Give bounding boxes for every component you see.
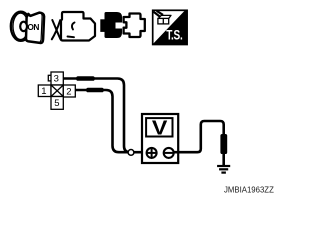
wire junction to voltmeter	[131, 151, 146, 154]
connect connector icon	[100, 12, 145, 38]
minus terminal	[164, 148, 174, 158]
junction circle	[128, 150, 134, 156]
svg-text:V: V	[152, 116, 168, 139]
T.S. test switch icon	[153, 10, 188, 44]
svg-text:ON: ON	[27, 22, 39, 32]
svg-text:JMBIA1963ZZ: JMBIA1963ZZ	[224, 186, 274, 195]
probe boot on pin-3 wire	[76, 76, 95, 81]
connector pinout: center cell with X	[51, 85, 63, 97]
ignition switch ON icon	[11, 12, 44, 43]
wire from pin 3 to junction	[63, 79, 130, 153]
voltmeter box	[142, 114, 178, 163]
voltmeter display window	[146, 118, 172, 136]
connector pinout: pin 3 cell	[51, 72, 63, 85]
plus terminal	[147, 148, 157, 158]
probe boot on ground wire	[220, 134, 227, 154]
connector pinout: tab	[48, 75, 51, 81]
wire from pin 2 to junction	[75, 90, 131, 152]
svg-text:5: 5	[54, 98, 59, 109]
svg-text:3: 3	[54, 74, 59, 85]
disconnect connector icon	[52, 12, 95, 41]
probe boot on pin-2 wire	[86, 88, 104, 93]
svg-text:T.S.: T.S.	[166, 27, 182, 43]
ground symbol	[217, 165, 230, 167]
connector pinout: pin 1 cell	[38, 85, 51, 97]
svg-text:2: 2	[66, 86, 71, 97]
connector pinout: pin 5 cell	[51, 97, 63, 110]
svg-text:1: 1	[41, 86, 46, 97]
connector pinout: pin 2 cell	[63, 85, 75, 97]
wire voltmeter to ground probe	[174, 121, 224, 166]
